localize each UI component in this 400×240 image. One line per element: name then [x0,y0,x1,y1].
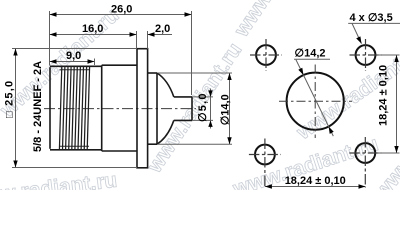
wire: pin bottom edge [174,119,192,121]
dimension 2,0 [148,23,173,49]
wire: boss top edge [148,72,157,74]
wire: body left face [49,67,51,149]
dimension 26,0 [50,4,192,96]
big circle centerlines [279,100,352,102]
svg-text:4 x ∅3,5: 4 x ∅3,5 [350,12,393,24]
wire: mid cylinder top edge [102,64,137,66]
wire: thread cylinder top edge [50,65,102,67]
dimension 18,24 +/- 0,10 (right) [377,55,400,153]
big circle dia 14,2 [287,73,344,130]
wire: thread cylinder bottom edge [50,149,102,151]
label dia 14,2 with leader [294,48,334,137]
svg-text:5/8 - 24UNEF - 2A: 5/8 - 24UNEF - 2A [32,61,44,152]
label 4 x dia 3,5 with leader [348,12,400,44]
wire: boss right face [156,73,158,144]
wire: mid cylinder bottom edge [102,150,137,152]
dimension 16,0 [50,23,137,49]
flange (side view, 2.0 thick) [137,49,148,168]
thread root line bottom [60,145,90,147]
svg-text:9,0: 9,0 [66,50,81,62]
dimension dia 5,0 (pin) [192,89,213,129]
svg-text:18,24 ± 0,10: 18,24 ± 0,10 [285,175,346,187]
bell curve bottom [157,120,174,144]
svg-text:2,0: 2,0 [155,23,170,35]
hole top-right [350,39,382,71]
bell curve top [157,73,174,97]
svg-text:∅14,0: ∅14,0 [219,94,231,125]
centerline of connector axis [44,108,196,110]
wire: pin top edge [174,96,192,98]
thread root line top [60,69,90,71]
wire: pin end face [191,97,193,121]
wire: step edge between thread and mid cylinder [101,65,103,151]
thread flank hatch lines [59,66,89,150]
svg-text:□ 25,0: □ 25,0 [4,80,16,118]
svg-text:∅14,2: ∅14,2 [295,48,326,60]
dimension 18,24 +/- 0,10 (bottom) [265,175,366,189]
dimension 9,0 [50,50,95,65]
dimension square 25,0 (flange size) [4,49,137,168]
hole bottom-right [349,137,381,188]
svg-text:16,0: 16,0 [82,23,103,35]
svg-text:18,24 ± 0,10: 18,24 ± 0,10 [377,65,389,126]
wire: boss bottom edge [148,143,157,145]
svg-text:∅5,0: ∅5,0 [197,92,209,122]
hole bottom-left [249,139,281,188]
svg-text:26,0: 26,0 [111,4,132,16]
dimension dia 14,0 (body) [158,73,232,144]
hole top-left [250,39,282,71]
